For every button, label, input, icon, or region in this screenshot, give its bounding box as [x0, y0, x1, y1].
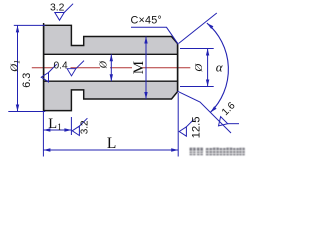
- roughness 0.4 in bore: [67, 61, 84, 76]
- end face through bore: [177, 44, 179, 92]
- angle dimension ray upper: [179, 13, 217, 43]
- svg-text:3.2: 3.2: [50, 2, 65, 13]
- svg-text:M: M: [131, 61, 147, 74]
- dimension phi (bore): [110, 54, 112, 81]
- part body (flanged bushing section, gray fill): [44, 25, 178, 110]
- bore top edge: [44, 53, 178, 55]
- dimension phi1 (head OD, left): [8, 25, 45, 111]
- dimension L1 (head width): [43, 129, 71, 131]
- svg-text:0.4: 0.4: [54, 60, 68, 71]
- dimension M (shaft OD): [145, 37, 147, 100]
- centerline (red axis): [32, 67, 191, 69]
- bore bottom edge: [44, 80, 178, 82]
- leader 1.6 lower right: [177, 91, 231, 133]
- extension line left face down: [42, 112, 44, 157]
- svg-text:12.5: 12.5: [191, 116, 203, 138]
- extension line head right face down: [70, 117, 72, 135]
- chamfer note C x 45: [131, 27, 178, 44]
- head left face through bore: [43, 23, 45, 111]
- dimension phi (end face, right): [180, 49, 214, 87]
- roughness 3.2 bottom on ext line: [72, 118, 87, 135]
- part outline (black): [44, 25, 178, 110]
- svg-text:Ø: Ø: [193, 63, 205, 73]
- roughness 3.2 top: [55, 4, 73, 21]
- roughness 6.3 on head left face: [41, 64, 56, 82]
- svg-text:Ø: Ø: [98, 60, 109, 69]
- extension line end face down: [177, 93, 179, 157]
- svg-text:α: α: [216, 59, 224, 74]
- watermark bottom right: [190, 148, 245, 156]
- roughness 12.5 on right ext line: [179, 120, 193, 137]
- bore (white through hole): [44, 54, 178, 81]
- svg-text:C×45°: C×45°: [131, 14, 162, 26]
- dimension L (overall length): [43, 149, 178, 151]
- angle dimension arc alpha: [207, 23, 228, 112]
- svg-text:6.3: 6.3: [21, 73, 33, 88]
- svg-text:3.2: 3.2: [79, 120, 90, 134]
- svg-text:L: L: [107, 135, 116, 152]
